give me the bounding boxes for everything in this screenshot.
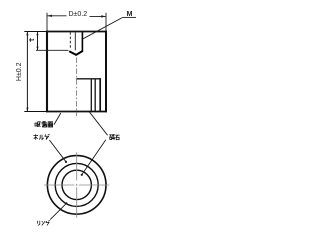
svg-text:M: M (127, 11, 133, 18)
tapped hole M (top center) (69, 32, 83, 55)
magnet outer edge (90, 79, 92, 111)
M thread label + leader (83, 17, 136, 38)
D dimension (47, 13, 106, 31)
holder body outline (side section view) (24, 31, 107, 113)
magnet / ring section (right half) (76, 78, 100, 111)
centre line of side view (76, 58, 78, 117)
magnet outer circle (55, 163, 98, 206)
H dim arrow bottom (26, 108, 28, 112)
D dim arrow left (47, 15, 52, 17)
ル (39, 135, 44, 140)
drill point V (69, 51, 83, 55)
t extension line at hole bottom (36, 49, 69, 51)
t dim arrow bottom (36, 47, 38, 51)
vertical centre line of bottom view (76, 152, 78, 218)
leader from magnet in section view (89, 112, 107, 136)
ホ (33, 134, 38, 139)
label リング (ring) (38, 220, 51, 225)
D dim arrow right (101, 15, 106, 17)
leader for 吸着面 (54, 113, 61, 125)
グ (46, 220, 50, 225)
label 吸着面 (attracting face) (35, 121, 53, 127)
leader for ホルダ (dot end) (49, 140, 66, 162)
extension lines (46, 13, 48, 31)
H dimension (26, 32, 28, 112)
着 (42, 121, 47, 127)
label ホルダ (holder) (33, 134, 49, 140)
label 磁石 (magnet) (109, 134, 119, 139)
right edge (105, 31, 107, 113)
面 (48, 122, 53, 127)
leader to magnet in bottom view (dot end) (82, 140, 106, 175)
svg-text:H±0.2: H±0.2 (16, 62, 23, 81)
ring outer edge (94, 79, 96, 111)
holder inner wall (99, 78, 101, 111)
thread line left (hidden, dashed) (69, 32, 71, 48)
left edge (46, 31, 48, 113)
dimension line segments (47, 15, 66, 17)
drill line (thin solid) (74, 32, 76, 50)
top face + H top extension line (24, 31, 47, 33)
thread line right (sectioned, solid thick) (81, 32, 83, 51)
ン (42, 221, 45, 225)
bottom face + H bottom extension line (24, 111, 47, 113)
horizontal centre line of bottom view (44, 184, 109, 186)
リ (38, 221, 40, 226)
leader for リング (dot end) (50, 203, 66, 219)
ダ (45, 134, 50, 140)
magnet top line (76, 78, 100, 80)
t dimension (tap depth) (36, 32, 69, 51)
leader dot on ring (65, 202, 67, 204)
磁 (109, 134, 114, 139)
吸 (35, 122, 40, 127)
bottom view: concentric circles (47, 156, 106, 215)
H dim arrow top (26, 32, 28, 36)
leader dot on holder (65, 161, 67, 163)
ring circle (62, 170, 91, 199)
svg-text:D±0.2: D±0.2 (68, 11, 87, 18)
t dim arrow top (36, 32, 38, 36)
石 (115, 135, 119, 140)
holder outer circle (47, 156, 106, 215)
label t (rotated) (29, 38, 33, 42)
leader dot on magnet (81, 174, 83, 176)
